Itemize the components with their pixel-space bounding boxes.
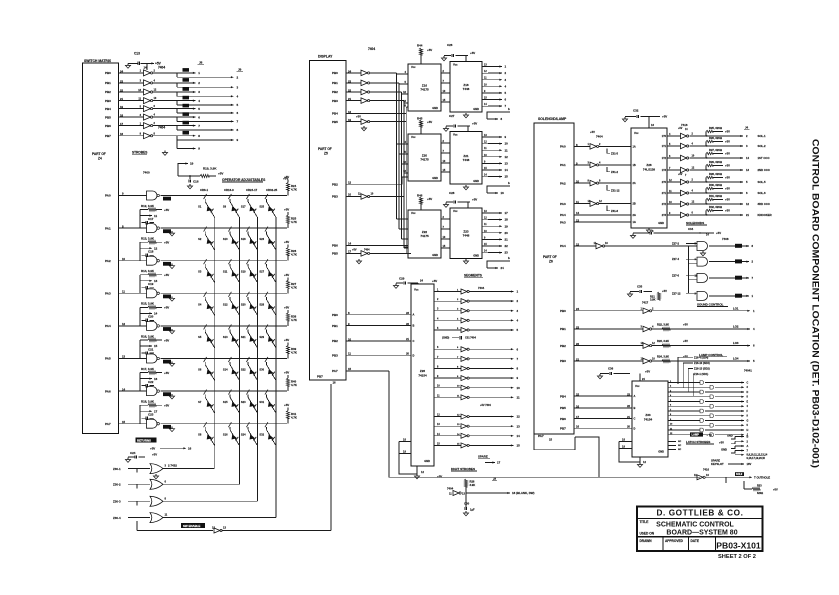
svg-text:PA5: PA5 <box>105 357 111 361</box>
ground row PA5 <box>171 362 173 364</box>
svg-text:1Y2: 1Y2 <box>662 157 667 160</box>
svg-text:620Ω: 620Ω <box>757 492 763 495</box>
svg-text:SOL9: SOL9 <box>736 473 743 476</box>
svg-text:+5V: +5V <box>725 152 730 156</box>
svg-text:+5V: +5V <box>356 115 361 119</box>
svg-text:CR32-25: CR32-25 <box>266 188 278 192</box>
svg-text:C28: C28 <box>449 191 455 195</box>
RETURNS label <box>136 438 157 443</box>
black tag S4 <box>735 276 742 280</box>
svg-text:+5V: +5V <box>284 273 289 277</box>
svg-text:PA2: PA2 <box>105 259 111 263</box>
latch arrows bundle <box>731 437 735 440</box>
svg-text:+5V: +5V <box>284 208 289 212</box>
svg-text:R22, 3.9K: R22, 3.9K <box>657 323 669 327</box>
wire gate out row KNOCKER <box>690 214 724 216</box>
svg-text:PB4: PB4 <box>105 107 111 111</box>
wire PB3 to inverter <box>118 100 144 102</box>
svg-text:OPERATOR ADJUSTABLES: OPERATOR ADJUSTABLES <box>222 178 266 182</box>
svg-text:D: D <box>413 353 415 357</box>
svg-text:(GND): (GND) <box>442 337 449 340</box>
svg-text:R30, 620Ω: R30, 620Ω <box>709 183 723 187</box>
+5V arrow at C13 <box>147 62 154 64</box>
ic Z26 74154 <box>411 284 434 466</box>
svg-text:PA4: PA4 <box>105 324 111 328</box>
svg-text:PB4: PB4 <box>332 112 338 116</box>
resistor R41 4.7K row PA7 <box>287 408 289 411</box>
wire PA0 to gate <box>118 195 147 197</box>
svg-text:SOLENOIDS: SOLENOIDS <box>686 221 704 225</box>
svg-text:S8: S8 <box>198 433 202 437</box>
resistor R24 4.7K row PA0 <box>287 180 289 183</box>
svg-text:PB3: PB3 <box>332 99 338 103</box>
svg-text:S14: S14 <box>223 368 228 372</box>
svg-text:A: A <box>747 445 749 448</box>
svg-text:+5V: +5V <box>427 48 432 52</box>
svg-text:10: 10 <box>122 257 126 261</box>
row PA0 matrix line <box>161 195 288 197</box>
row PA7 matrix line <box>161 423 288 425</box>
inverter PB3 lower <box>361 194 368 200</box>
gate output tag PA7 <box>163 425 171 429</box>
svg-text:GND: GND <box>658 450 664 454</box>
segment driver row 12 <box>434 416 443 418</box>
arrow feed row PA2 <box>140 247 152 249</box>
svg-text:+5V: +5V <box>432 279 437 283</box>
solenoid box bottom step <box>534 434 575 450</box>
strobe S1 tag <box>183 78 190 82</box>
svg-text:PA3: PA3 <box>560 202 566 206</box>
svg-text:2A: 2A <box>633 182 636 185</box>
wire to driver gate row 3RD CCC <box>676 203 681 205</box>
svg-text:DIGIT STROBES: DIGIT STROBES <box>451 467 475 471</box>
svg-text:R13, 3.9K: R13, 3.9K <box>141 237 155 241</box>
svg-text:LO4: LO4 <box>733 357 739 361</box>
bus wire D1 vertical <box>398 83 400 229</box>
ic Z21 7448 <box>450 132 482 185</box>
wire PA7 to gate <box>118 423 147 425</box>
bent arrow output 24 <box>487 261 510 268</box>
svg-text:PA4: PA4 <box>560 244 566 248</box>
svg-text:CR24-17: CR24-17 <box>246 188 258 192</box>
matrix column 3 vertical wire <box>257 218 259 502</box>
strobe S3 long arrow <box>176 101 178 105</box>
inverter PB3 7404 <box>361 98 368 104</box>
svg-text:PB0: PB0 <box>332 313 338 317</box>
svg-text:GND: GND <box>424 459 430 463</box>
svg-text:PB2: PB2 <box>332 339 338 343</box>
svg-text:C: C <box>747 381 749 384</box>
svg-text:7404: 7404 <box>447 487 454 491</box>
svg-text:+5V: +5V <box>427 120 432 124</box>
svg-text:DATE: DATE <box>691 539 699 543</box>
strobe S0 short arrow <box>177 72 196 74</box>
svg-text:R18, 3.9K: R18, 3.9K <box>141 400 155 404</box>
wire Z30-3 input <box>128 500 150 502</box>
svg-text:S11: S11 <box>223 270 228 274</box>
svg-text:12: 12 <box>505 155 509 159</box>
wire PA2 to gate <box>118 260 147 262</box>
svg-text:12: 12 <box>348 181 352 185</box>
svg-text:Vcc: Vcc <box>634 131 639 135</box>
bus stub D1 to Z16 <box>399 83 408 85</box>
wire PB3 <box>346 100 361 102</box>
svg-text:Vcc: Vcc <box>411 135 416 139</box>
output arrow SOL.5 <box>723 181 743 183</box>
svg-text:J4: J4 <box>745 126 749 130</box>
svg-text:Z27-12: Z27-12 <box>672 291 681 295</box>
svg-text:PA3: PA3 <box>105 292 111 296</box>
switch matrix bus box (part of Z4) <box>83 63 119 433</box>
tap label Z31-5 <box>607 148 610 153</box>
svg-text:C16: C16 <box>193 180 199 184</box>
svg-text:+5V: +5V <box>164 273 169 277</box>
svg-text:Vcc: Vcc <box>411 211 416 215</box>
svg-text:+5V: +5V <box>164 338 169 342</box>
segment driver row 8 <box>434 367 443 369</box>
svg-text:PB5: PB5 <box>332 120 338 124</box>
wire inverter PB6 output <box>153 125 177 127</box>
svg-text:C: C <box>413 339 415 343</box>
svg-text:+5V: +5V <box>716 231 721 235</box>
wire to driver gate row SOL.6 <box>676 192 681 194</box>
svg-text:PB3: PB3 <box>560 359 566 363</box>
svg-text:PB0: PB0 <box>560 309 566 313</box>
resistor R40 4.7K row PA6 <box>287 375 289 378</box>
Z20-Z21 wires <box>441 142 450 144</box>
svg-text:S12: S12 <box>223 302 228 306</box>
svg-text:+5V: +5V <box>284 175 289 179</box>
svg-text:+5V: +5V <box>164 306 169 310</box>
svg-text:12: 12 <box>746 202 749 206</box>
svg-text:b: b <box>508 181 510 185</box>
wire PB4 <box>346 112 406 114</box>
strobe S3 short arrow <box>177 100 196 102</box>
svg-text:7404: 7404 <box>158 66 165 70</box>
svg-text:C34: C34 <box>688 227 694 231</box>
svg-text:R15, 3.9K: R15, 3.9K <box>141 302 155 306</box>
ground at C13 <box>127 63 129 65</box>
svg-text:PB4: PB4 <box>560 394 566 398</box>
svg-text:Z4: Z4 <box>98 157 102 161</box>
svg-text:S7: S7 <box>198 400 202 404</box>
strobe 9 bent arrow <box>176 140 178 149</box>
gnd at PB5 inverter <box>363 126 365 128</box>
svg-text:C32: C32 <box>633 109 639 113</box>
svg-text:D. GOTTLIEB & CO.: D. GOTTLIEB & CO. <box>656 509 743 518</box>
svg-text:R25, 620Ω: R25, 620Ω <box>709 126 723 130</box>
svg-text:C20: C20 <box>148 315 154 319</box>
svg-text:PB0: PB0 <box>332 71 338 75</box>
svg-text:74175: 74175 <box>420 234 429 238</box>
solenoid bus box (part of Z6) <box>534 123 574 434</box>
svg-text:Z31-8: Z31-8 <box>611 209 619 213</box>
output arrow S4 <box>709 277 735 279</box>
svg-text:C31 7404: C31 7404 <box>465 337 476 340</box>
svg-text:20: 20 <box>505 231 509 235</box>
svg-text:2Y0: 2Y0 <box>662 181 667 184</box>
svg-text:4.7K: 4.7K <box>291 220 297 224</box>
ground row PA6 <box>171 394 173 396</box>
ground row PA7 <box>171 427 173 429</box>
strobe S1 short arrow <box>177 82 196 84</box>
svg-text:PB1: PB1 <box>560 327 566 331</box>
inverter PA2 7404 <box>590 180 597 186</box>
svg-text:+5V: +5V <box>437 475 442 479</box>
svg-text:J9: J9 <box>238 68 242 72</box>
Z33 output row 3 <box>668 391 676 393</box>
svg-text:+5V: +5V <box>683 339 688 343</box>
bus wire D2 vertical <box>401 92 403 239</box>
svg-text:C19: C19 <box>148 282 154 286</box>
output arrow SOL.6 <box>723 192 743 194</box>
svg-text:C17: C17 <box>148 217 154 221</box>
nand gate Z2 row PA3 <box>147 289 158 298</box>
svg-text:+5V: +5V <box>152 453 157 457</box>
svg-text:PA4: PA4 <box>560 213 566 217</box>
strobe S5 short arrow <box>177 116 196 118</box>
bus stub D2 to Z20 <box>402 163 409 165</box>
svg-text:PB6: PB6 <box>105 124 111 128</box>
svg-text:Z30-2: Z30-2 <box>113 483 121 487</box>
wire PA4 to gate <box>118 325 147 327</box>
svg-text:R14, 3.9K: R14, 3.9K <box>141 269 155 273</box>
pin list text <box>735 454 744 456</box>
Z33 output row 7 <box>668 410 676 412</box>
wire C13 to Z1 pin 14 <box>146 63 148 70</box>
LAMP tag <box>690 432 703 436</box>
svg-text:+5V: +5V <box>164 208 169 212</box>
lamp output arrow LO2 <box>742 328 750 330</box>
svg-text:S27: S27 <box>259 270 264 274</box>
svg-text:R23, 3.9K: R23, 3.9K <box>657 339 669 343</box>
svg-text:CONTROL BOARD COMPONENT LOCATI: CONTROL BOARD COMPONENT LOCATION (DET. P… <box>810 139 821 468</box>
inverter Z1g 7404 <box>144 123 151 129</box>
Z33 NC pins <box>668 441 676 443</box>
svg-text:7448: 7448 <box>463 87 470 91</box>
svg-text:13: 13 <box>505 162 509 166</box>
svg-text:S31: S31 <box>259 400 264 404</box>
svg-text:S9: S9 <box>223 205 227 209</box>
blank arrow <box>465 487 467 493</box>
svg-text:Z5: Z5 <box>324 152 328 156</box>
svg-text:NC: NC <box>678 445 682 447</box>
wire C32 to Z28 Vcc <box>648 117 650 129</box>
row PA3 matrix line <box>161 292 288 294</box>
Z16 output wires to Z18 <box>441 72 450 74</box>
svg-text:+5V: +5V <box>284 338 289 342</box>
svg-text:PB03-X101: PB03-X101 <box>716 541 761 551</box>
svg-text:R27, 620Ω: R27, 620Ω <box>709 148 723 152</box>
svg-text:Vcc: Vcc <box>635 384 640 388</box>
Z33 output row 10 <box>668 424 676 426</box>
bus stub D3 to Z22 <box>404 247 408 249</box>
wire to driver gate row 2ND CCC <box>676 169 681 171</box>
driver gate 7416 row 2ND CCC <box>681 167 687 173</box>
tap label Z31-8 <box>607 206 610 211</box>
svg-text:10: 10 <box>505 142 509 146</box>
svg-text:+5V: +5V <box>218 172 223 176</box>
strobe S2 short arrow <box>177 91 196 93</box>
display bus box (part of Z5) <box>310 61 347 381</box>
svg-text:LO3: LO3 <box>733 341 739 345</box>
or-gate Z30a 7432 <box>150 464 163 474</box>
svg-text:SW ENABLE: SW ENABLE <box>183 524 200 528</box>
svg-text:2ND CCC: 2ND CCC <box>758 168 770 172</box>
svg-text:GND: GND <box>473 179 479 183</box>
svg-text:15: 15 <box>122 420 126 424</box>
svg-text:Z26: Z26 <box>420 369 426 373</box>
svg-text:7404: 7404 <box>478 286 485 290</box>
svg-text:C18: C18 <box>148 250 154 254</box>
svg-text:15: 15 <box>154 344 158 348</box>
svg-text:C21: C21 <box>148 347 154 351</box>
svg-text:7400: 7400 <box>143 171 150 175</box>
svg-text:14: 14 <box>122 387 126 391</box>
svg-text:Z30-3: Z30-3 <box>113 500 121 504</box>
SW ENABLE label <box>181 523 205 528</box>
svg-text:+5V: +5V <box>725 176 730 180</box>
svg-text:7404: 7404 <box>158 126 165 130</box>
bus stub D2 to Z22 <box>402 238 409 240</box>
svg-text:74LS139: 74LS139 <box>643 168 656 172</box>
wire Z30-1 input <box>128 468 150 470</box>
svg-text:18 (BLANK, DW): 18 (BLANK, DW) <box>512 491 535 495</box>
arrow feed row PA3 <box>140 280 152 282</box>
svg-text:R33: R33 <box>757 485 762 488</box>
svg-text:Z27-6: Z27-6 <box>672 273 680 277</box>
inverter Z1b 7404 <box>144 80 151 86</box>
and gate Z27 row S4 <box>697 273 708 282</box>
svg-text:14: 14 <box>517 434 521 438</box>
svg-text:1Y1: 1Y1 <box>662 145 667 148</box>
wire PA5 to gate <box>118 358 147 360</box>
ic Z16 74175 <box>408 64 441 111</box>
title block row2 divider <box>637 536 763 538</box>
segment driver row 13 <box>434 425 443 427</box>
svg-text:16: 16 <box>501 191 505 195</box>
wire gate out row SOL.2 <box>690 145 724 147</box>
svg-text:SHEET 2 OF 2: SHEET 2 OF 2 <box>718 554 756 560</box>
svg-text:GND: GND <box>473 254 479 258</box>
svg-text:PB6: PB6 <box>332 244 338 248</box>
svg-text:7448: 7448 <box>463 158 470 162</box>
Z18 output arrows group 1 <box>482 66 488 68</box>
svg-text:Z27-4: Z27-4 <box>672 257 680 261</box>
svg-text:+5V: +5V <box>662 115 667 119</box>
output arrow SOL.1 <box>723 135 743 137</box>
inverter Z1a 7404 <box>144 70 151 76</box>
svg-text:T OUTHOLE: T OUTHOLE <box>754 475 770 479</box>
svg-text:S3: S3 <box>198 270 202 274</box>
ground row PA1 <box>171 231 173 233</box>
buffer PB0 7417 <box>643 308 650 314</box>
wire PB5 inverter out <box>370 121 406 123</box>
svg-text:S26: S26 <box>259 237 264 241</box>
svg-text:13: 13 <box>223 526 226 530</box>
svg-text:S6: S6 <box>198 368 202 372</box>
svg-text:+5V: +5V <box>719 441 724 445</box>
segment driver row 3 <box>434 310 443 312</box>
driver gate 7416 row KNOCKER <box>681 212 687 218</box>
ground at C24 <box>127 458 129 460</box>
wire to driver gate row KNOCKER <box>676 214 681 216</box>
svg-text:GND: GND <box>721 447 727 451</box>
svg-text:4.7K: 4.7K <box>291 188 297 192</box>
svg-text:11: 11 <box>505 148 508 152</box>
arrow feed row PA1 <box>140 215 152 217</box>
nand gate Z2 row PA1 <box>147 224 158 233</box>
inverter PB2 7404 <box>361 89 368 95</box>
svg-text:R16, 3.9K: R16, 3.9K <box>141 334 155 338</box>
svg-text:S16: S16 <box>223 433 228 437</box>
svg-text:S30: S30 <box>259 368 264 372</box>
svg-text:+5V: +5V <box>590 130 595 134</box>
resistor R21 3.9K <box>657 292 660 300</box>
wire gate out row 1ST CCC <box>690 157 724 159</box>
svg-text:+5V: +5V <box>470 51 475 55</box>
gnd C30 <box>465 511 467 513</box>
svg-text:SOL.2: SOL.2 <box>758 144 767 148</box>
lamp output arrow LO4 <box>742 360 750 362</box>
svg-text:8,9,10,11,12,13,14: 8,9,10,11,12,13,14 <box>747 454 768 457</box>
row PA1 matrix line <box>161 227 288 229</box>
svg-text:KEYSLOT: KEYSLOT <box>711 462 724 466</box>
wire to driver gate row SOL.2 <box>676 145 681 147</box>
wire gate out row SOL.1 <box>690 135 724 137</box>
svg-text:+5V: +5V <box>678 173 683 176</box>
strobe S5 long arrow <box>176 117 178 121</box>
svg-text:PA7: PA7 <box>538 434 544 438</box>
svg-text:PA6: PA6 <box>105 389 111 393</box>
Z33 output row 4 <box>668 396 676 398</box>
svg-text:PA1: PA1 <box>105 226 111 230</box>
strobe S7 long arrow <box>176 136 178 140</box>
strobe S2 tag <box>183 87 190 91</box>
svg-text:A: A <box>413 313 415 317</box>
wire inverter PB0 output <box>153 72 177 74</box>
bent arrow output 16 <box>487 186 510 193</box>
strobe S4 long arrow <box>176 109 178 113</box>
wire gate out row 2ND CCC <box>690 169 724 171</box>
output arrow S2 <box>709 261 735 263</box>
output arrow S1 <box>709 245 735 247</box>
svg-text:1A: 1A <box>633 145 636 148</box>
svg-text:C: C <box>634 417 636 421</box>
strobe S1 long arrow <box>176 83 178 87</box>
svg-text:PA0: PA0 <box>105 194 111 198</box>
wire PB0 <box>346 72 361 74</box>
svg-text:PB7: PB7 <box>105 134 111 138</box>
svg-text:14: 14 <box>505 168 509 172</box>
arrow feed row PA6 <box>140 378 152 380</box>
svg-text:1G: 1G <box>633 221 636 224</box>
or-gate Z30c 7432 <box>150 496 163 506</box>
and gate Z27 row S2 <box>697 257 708 266</box>
svg-text:Z28: Z28 <box>646 163 652 167</box>
svg-text:Z27-2: Z27-2 <box>672 242 680 246</box>
svg-text:+5V: +5V <box>725 164 730 168</box>
wire PB1 to inverter <box>118 82 144 84</box>
svg-text:RETURNS: RETURNS <box>137 439 151 443</box>
svg-text:3RD CCC: 3RD CCC <box>758 202 770 206</box>
wire PB1 <box>346 82 361 84</box>
matrix column 2 vertical wire <box>239 218 241 485</box>
ic Z23 7448 <box>450 208 482 259</box>
Z23 output arrows group 3 <box>482 212 488 214</box>
svg-text:2 7432: 2 7432 <box>168 463 177 467</box>
svg-text:GND: GND <box>432 106 438 110</box>
